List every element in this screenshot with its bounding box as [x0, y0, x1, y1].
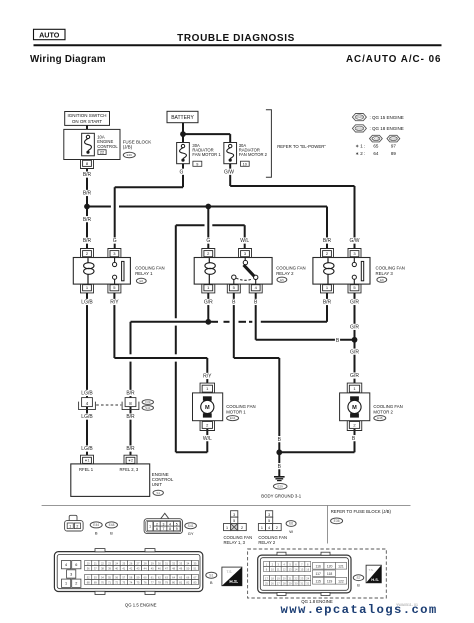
svg-text:COOLING FAN: COOLING FAN	[135, 266, 164, 271]
wire B relay2 pin4	[253, 293, 354, 344]
inline connector 4 on LG/B	[79, 398, 96, 410]
svg-text:∗ 1 :: ∗ 1 :	[355, 144, 365, 149]
svg-text:GY: GY	[188, 531, 194, 536]
ECU connector QG15 view	[54, 549, 202, 595]
svg-text:G/W: G/W	[224, 169, 234, 175]
svg-text:RELAY 2: RELAY 2	[258, 540, 276, 545]
wire B relay2 pin5 to ground	[231, 293, 282, 476]
svg-text:H.S.: H.S.	[371, 577, 379, 582]
wire G to cooling fan relay 2	[206, 207, 211, 249]
fuse 30A radiator fan motor 1	[177, 143, 222, 167]
junction ground	[276, 449, 282, 455]
svg-text:QG 1.5 ENGINE: QG 1.5 ENGINE	[125, 602, 157, 607]
svg-text:B/R: B/R	[83, 172, 92, 178]
svg-text:R/Y: R/Y	[203, 374, 212, 380]
svg-text:E29: E29	[278, 484, 284, 488]
svg-text:B/R: B/R	[83, 238, 92, 244]
wire LG/B relay1 pin1 to ECU	[80, 293, 94, 455]
svg-text:2: 2	[75, 582, 77, 586]
connector view E44 E48 motors	[65, 515, 118, 535]
svg-text:4: 4	[169, 522, 171, 526]
svg-text:BATTERY: BATTERY	[171, 115, 194, 121]
svg-text:ON OR START: ON OR START	[72, 119, 103, 124]
wire B motor2 pin2 to ground junction	[279, 429, 356, 452]
svg-text:1: 1	[69, 525, 71, 529]
wire ignition to fuse block	[86, 125, 88, 129]
svg-text:B/R: B/R	[83, 191, 92, 197]
svg-text:B: B	[210, 581, 213, 585]
svg-text:6: 6	[75, 563, 77, 567]
svg-text:1: 1	[226, 526, 228, 530]
svg-text:MOTOR 1: MOTOR 1	[226, 409, 246, 414]
svg-text:G/R: G/R	[204, 300, 213, 306]
fuse 30A radiator fan motor 2	[224, 143, 268, 167]
svg-text:COOLING FAN: COOLING FAN	[376, 266, 405, 271]
svg-text:: QG 18 ENGINE: : QG 18 ENGINE	[370, 126, 404, 131]
connector ref relay oval	[286, 521, 296, 535]
svg-text:QG15: QG15	[356, 115, 363, 119]
svg-text:2: 2	[276, 526, 278, 530]
svg-text:E48: E48	[109, 523, 115, 527]
wire G/W from fuse 10 to relay 3	[223, 164, 360, 249]
svg-text:2: 2	[76, 525, 78, 529]
wire battery feed	[183, 123, 230, 143]
connector refs F39 S41	[142, 400, 153, 410]
svg-text:B/R: B/R	[126, 391, 135, 397]
svg-text:1: 1	[261, 526, 263, 530]
svg-text:3: 3	[70, 572, 72, 576]
ECU connector QG18 view dashed box	[248, 549, 387, 598]
svg-text:∗ 2 :: ∗ 2 :	[355, 151, 365, 156]
svg-text:M: M	[352, 405, 357, 411]
svg-text:97: 97	[391, 144, 397, 149]
svg-text:G/R: G/R	[350, 300, 359, 306]
connector view cooling fan relay 2	[258, 511, 287, 546]
junction G/R cross link	[205, 319, 211, 325]
svg-text:5: 5	[268, 519, 270, 523]
svg-text:2: 2	[241, 526, 243, 530]
svg-text:B: B	[357, 583, 360, 587]
svg-text:B: B	[95, 531, 98, 536]
svg-text:6: 6	[156, 527, 158, 531]
svg-text:H.S.: H.S.	[229, 579, 238, 584]
svg-text:22: 22	[100, 151, 104, 155]
svg-text:9: 9	[196, 162, 198, 166]
svg-text:LG/B: LG/B	[81, 300, 93, 306]
legend QG15 engine symbol	[352, 114, 403, 121]
svg-text:118: 118	[327, 572, 333, 576]
svg-text:F39: F39	[145, 400, 151, 404]
legend separator line	[42, 504, 411, 506]
cooling fan relay 1	[73, 249, 164, 293]
svg-text:E8: E8	[380, 278, 384, 282]
svg-text:CONTROL: CONTROL	[97, 144, 118, 149]
wire B/R main horizontal	[87, 207, 333, 249]
svg-text:G/W: G/W	[350, 238, 360, 244]
svg-text:RFEL 2, 3: RFEL 2, 3	[120, 467, 139, 472]
svg-text:FAN MOTOR 2: FAN MOTOR 2	[239, 152, 268, 157]
svg-text:2: 2	[156, 522, 158, 526]
svg-text:W/L: W/L	[203, 436, 212, 442]
inline connector 8 on B/R	[122, 398, 139, 410]
svg-text:RELAY 1, 3: RELAY 1, 3	[224, 540, 246, 545]
wire G/R relay3 pin5 to motor 2	[349, 293, 360, 383]
cooling fan motor 1	[193, 383, 256, 430]
svg-text:1: 1	[65, 582, 67, 586]
svg-text:LG/B: LG/B	[81, 446, 93, 452]
svg-text:REFER TO FUSE BLOCK (J/B): REFER TO FUSE BLOCK (J/B)	[331, 509, 392, 514]
svg-text:T.S.: T.S.	[227, 570, 233, 574]
svg-text:RELAY 2: RELAY 2	[276, 271, 294, 276]
svg-text:E6: E6	[289, 522, 293, 526]
refer to fuse block note	[331, 509, 392, 524]
svg-text:64: 64	[373, 151, 379, 156]
battery box	[167, 111, 198, 122]
svg-text:LG/B: LG/B	[81, 391, 93, 397]
svg-text:W/L: W/L	[240, 238, 249, 244]
svg-text:IGNITION SWITCH: IGNITION SWITCH	[68, 113, 107, 118]
svg-text:G: G	[206, 238, 210, 244]
svg-text:RFEL 1: RFEL 1	[79, 467, 94, 472]
fuse block pin 8	[81, 160, 94, 169]
wire G from fuse 9 to relay 1	[112, 164, 184, 249]
svg-text:G: G	[113, 238, 117, 244]
svg-text:89: 89	[391, 151, 397, 156]
fuse 22 10A ENGINE CONTROL	[82, 133, 119, 156]
ECU connector QG18 view	[258, 552, 351, 595]
svg-text:E5: E5	[280, 278, 284, 282]
connector ref F7	[353, 575, 363, 588]
body ground symbol	[261, 477, 301, 499]
svg-text:S41: S41	[188, 524, 194, 528]
svg-text:LG/B: LG/B	[81, 414, 93, 420]
svg-text:S1: S1	[209, 573, 213, 577]
junction B/R main	[84, 204, 90, 210]
svg-text:E44: E44	[93, 523, 99, 527]
cooling fan relay 2	[194, 249, 305, 293]
svg-text:B/R: B/R	[323, 238, 332, 244]
svg-text:G/R: G/R	[350, 325, 359, 331]
junction B/R tap	[205, 204, 211, 210]
svg-text:COOLING FAN: COOLING FAN	[373, 404, 402, 409]
wire R/Y relay1 pin5 to motor 1	[109, 293, 213, 383]
svg-text:UNIT: UNIT	[152, 482, 163, 487]
junction battery	[180, 131, 186, 137]
svg-text:S7: S7	[356, 576, 360, 580]
svg-text:B/R: B/R	[323, 300, 332, 306]
svg-text:3: 3	[268, 513, 270, 517]
connector view S41	[144, 513, 196, 536]
svg-text:REFER TO “EL-POWER”: REFER TO “EL-POWER”	[277, 144, 326, 149]
svg-text:5: 5	[176, 522, 178, 526]
svg-text:E36: E36	[334, 519, 340, 523]
svg-text:S1: S1	[156, 491, 160, 495]
svg-text:3: 3	[163, 522, 165, 526]
connector view cooling fan relay 1 3	[224, 511, 253, 546]
svg-text:117: 117	[315, 572, 321, 576]
legend pin number table	[355, 135, 400, 156]
svg-text:115: 115	[315, 580, 321, 584]
svg-text:∗1: ∗1	[84, 459, 89, 463]
svg-text:AUTO: AUTO	[39, 30, 60, 39]
svg-text:G: G	[180, 169, 184, 175]
page header	[30, 29, 442, 65]
engine control unit box	[71, 455, 174, 496]
svg-text:MOTOR 2: MOTOR 2	[373, 409, 393, 414]
svg-text:E48: E48	[377, 416, 383, 420]
dashed connector link	[96, 404, 121, 406]
svg-text:4: 4	[268, 526, 270, 530]
cooling fan motor 2	[340, 383, 403, 430]
svg-text:T.S.: T.S.	[369, 568, 374, 572]
svg-text:G/R: G/R	[350, 349, 359, 355]
svg-text:RELAY 1: RELAY 1	[135, 271, 153, 276]
svg-text:E6: E6	[139, 279, 143, 283]
cooling fan relay 3	[313, 249, 405, 293]
svg-text:: QG 15 ENGINE: : QG 15 ENGINE	[370, 115, 404, 120]
svg-text:BODY GROUND 3-1: BODY GROUND 3-1	[261, 493, 301, 498]
wire cross link relay3 pin1 to ECU	[125, 293, 333, 455]
svg-text:9: 9	[176, 527, 178, 531]
svg-text:∗2: ∗2	[128, 459, 133, 463]
svg-text:COOLING FAN: COOLING FAN	[276, 266, 305, 271]
svg-text:116: 116	[315, 565, 321, 569]
fuse block label	[123, 139, 152, 149]
svg-text:120: 120	[327, 565, 333, 569]
svg-text:RELAY 3: RELAY 3	[376, 271, 394, 276]
wire W/L relay2 pin3 loop	[176, 225, 251, 452]
harness side icon right	[366, 565, 381, 583]
fuse block (J/B) box	[64, 129, 120, 159]
svg-text:8: 8	[169, 527, 171, 531]
svg-text:FAN MOTOR 1: FAN MOTOR 1	[192, 152, 221, 157]
svg-text:E36: E36	[127, 153, 133, 157]
svg-text:TROUBLE DIAGNOSIS: TROUBLE DIAGNOSIS	[177, 33, 295, 44]
svg-text:M: M	[205, 405, 210, 411]
svg-text:122: 122	[338, 580, 344, 584]
svg-text:(J/B): (J/B)	[123, 144, 133, 149]
svg-text:7: 7	[163, 527, 165, 531]
svg-text:COOLING FAN: COOLING FAN	[226, 404, 255, 409]
svg-text:E44: E44	[230, 416, 236, 420]
ignition switch box	[65, 112, 110, 126]
svg-text:www.epcatalogs.com: www.epcatalogs.com	[281, 603, 438, 617]
refer to EL-POWER bracket	[266, 110, 326, 178]
svg-text:B/R: B/R	[126, 414, 135, 420]
svg-text:S41: S41	[145, 406, 151, 410]
svg-text:R/Y: R/Y	[110, 300, 119, 306]
svg-text:4: 4	[65, 563, 67, 567]
svg-text:10: 10	[243, 162, 247, 166]
svg-text:65: 65	[373, 144, 379, 149]
svg-text:W: W	[289, 529, 293, 534]
junction B to G/R	[352, 337, 358, 343]
svg-text:QG18: QG18	[356, 127, 363, 131]
svg-text:B: B	[110, 531, 113, 536]
svg-text:QG18: QG18	[390, 137, 397, 141]
wire B/R ignition feed	[81, 169, 92, 249]
connector ref S1	[206, 572, 217, 585]
connector ref E36 oval	[123, 152, 135, 157]
svg-text:AC/AUTO A/C- 06: AC/AUTO A/C- 06	[346, 54, 442, 65]
wire G/R relay2 pin1	[203, 293, 214, 322]
svg-text:B/R: B/R	[126, 446, 135, 452]
svg-text:121: 121	[338, 565, 344, 569]
legend QG18 engine symbol	[352, 125, 403, 132]
harness side icon left	[222, 567, 242, 586]
svg-text:119: 119	[327, 580, 333, 584]
svg-text:QG15: QG15	[372, 137, 379, 141]
svg-text:5: 5	[233, 519, 235, 523]
svg-text:3: 3	[233, 513, 235, 517]
svg-text:G/R: G/R	[350, 373, 359, 379]
svg-text:Wiring Diagram: Wiring Diagram	[30, 54, 106, 65]
svg-text:B/R: B/R	[83, 217, 92, 223]
svg-text:1: 1	[149, 525, 151, 529]
legend divider vertical	[327, 505, 329, 543]
